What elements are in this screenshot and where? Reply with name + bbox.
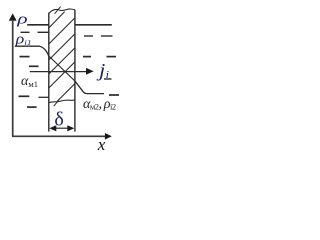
dash right y56 segment 1 xyxy=(83,56,91,58)
svg-text:ρ: ρ xyxy=(16,10,28,26)
solid seg to wall y97 xyxy=(39,96,49,98)
dash left y66 xyxy=(29,65,39,67)
wall left edge xyxy=(48,13,50,132)
dash left y32 segment 1 xyxy=(21,31,30,33)
flux arrowhead xyxy=(86,68,94,75)
hatch 1 xyxy=(49,12,65,28)
hatch 3 xyxy=(49,34,75,60)
hatch 2 xyxy=(49,18,75,44)
rho level line left xyxy=(27,24,49,26)
delta dimension arrow xyxy=(52,127,72,129)
hatch 4 xyxy=(49,48,75,74)
profile inside wall xyxy=(49,56,75,81)
dash left y96 xyxy=(19,95,30,97)
hatch 5 xyxy=(49,62,75,88)
wall wavy top xyxy=(49,9,75,13)
svg-text:δ: δ xyxy=(54,108,63,130)
rho_i1 level line + boundary layer drop xyxy=(15,46,49,56)
dash right y56 segment 2 xyxy=(107,56,117,58)
gray dash right y36 segment 1 xyxy=(84,35,93,37)
delta dimension right arrowhead xyxy=(67,125,74,131)
y-axis arrowhead xyxy=(9,13,17,20)
wavy top slash xyxy=(55,7,61,14)
gray dash right y36 segment 2 xyxy=(101,35,113,37)
dash left y56 xyxy=(20,56,30,58)
x-axis arrowhead xyxy=(105,133,112,140)
flux arrow line xyxy=(30,71,87,73)
profile right side drop to rho_i2 level xyxy=(75,81,104,94)
x-axis xyxy=(12,135,106,137)
wall right edge xyxy=(74,10,76,132)
wavy bottom slash xyxy=(54,99,60,106)
dash right y95 xyxy=(109,94,119,96)
dash left y32 segment 2 (to wall) xyxy=(38,31,49,33)
y-axis xyxy=(12,21,14,136)
svg-text:x: x xyxy=(97,135,106,154)
wall wavy bottom xyxy=(49,100,75,103)
rho level line right xyxy=(75,24,112,26)
dash left y107 xyxy=(27,106,37,108)
delta dimension left arrowhead xyxy=(49,125,56,131)
gray dash right y79 xyxy=(104,78,112,80)
hatch 6 xyxy=(58,84,75,101)
